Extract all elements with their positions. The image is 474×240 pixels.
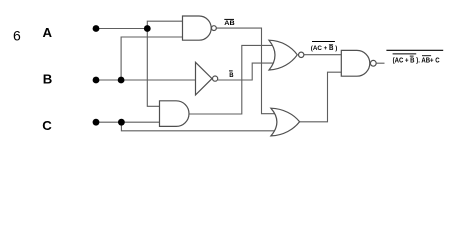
wire A to NAND U1 top input: [147, 21, 182, 28]
wire C horizontal to AND U4 bottom input: [96, 121, 160, 123]
wire B horizontal: [96, 79, 196, 81]
svg-text:(AC + B ). AB+ C: (AC + B ). AB+ C: [393, 55, 441, 64]
junction dot on B line: [118, 77, 125, 84]
wire AND U4 output (AC) up to NOR U3 top input: [189, 45, 274, 114]
OR gate U5 (inputs AB-bar, C): [271, 108, 300, 136]
NAND gate U6 (final, inputs NOR-out, OR-out): [341, 50, 369, 76]
inverter U2 (input B): [196, 62, 213, 95]
NAND gate U1 (inputs A,B): [183, 16, 212, 40]
wire NAND U6 output: [377, 62, 385, 64]
NOR gate U3 (inputs AC, NOT-B): [269, 40, 297, 70]
svg-text:B: B: [43, 72, 53, 87]
wire A horizontal: [96, 28, 147, 30]
node C input terminal dot: [93, 119, 100, 126]
wire NOR U3 output to NAND U6 top input: [304, 54, 341, 56]
wire NAND U1 output (AB bar) down to OR U5 top input: [216, 28, 275, 114]
wire A down to AND U4 top input: [147, 29, 159, 107]
junction dot on A line: [144, 25, 151, 32]
wire C down to OR U5 bottom input: [121, 122, 275, 131]
node A input terminal dot: [93, 25, 100, 32]
svg-text:(AC + B ): (AC + B ): [311, 45, 338, 52]
wire B up to NAND U1 bottom input: [121, 37, 182, 80]
svg-text:B: B: [229, 73, 234, 79]
svg-text:A: A: [43, 25, 53, 40]
svg-text:AB: AB: [224, 20, 235, 27]
junction dot on C line: [118, 119, 125, 126]
wire NOT-B from inverter U2 to NOR U3 bottom input: [218, 63, 274, 80]
AND gate U4 (inputs A,C): [160, 101, 190, 127]
wire OR U5 output up to NAND U6 bottom input: [300, 72, 342, 122]
svg-text:6: 6: [13, 28, 21, 44]
svg-text:C: C: [42, 118, 52, 133]
node B input terminal dot: [93, 77, 100, 84]
